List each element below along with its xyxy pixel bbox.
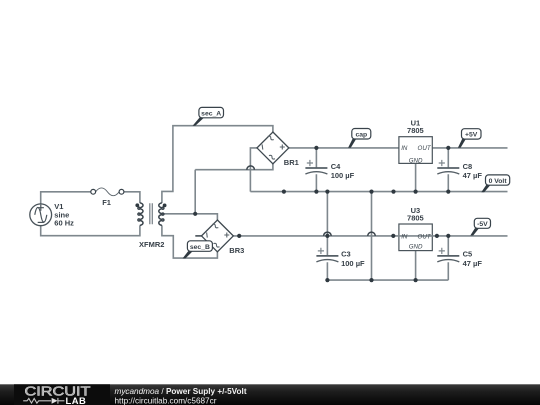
svg-text:mycandmoa / Power Suply +/-5Vo: mycandmoa / Power Suply +/-5Volt (115, 387, 247, 396)
svg-text:LAB: LAB (66, 395, 87, 405)
svg-text:C5: C5 (463, 250, 473, 259)
svg-text:+5V: +5V (465, 132, 478, 139)
svg-text:GND: GND (409, 157, 423, 164)
svg-text:C4: C4 (331, 162, 341, 171)
svg-text:OUT: OUT (418, 233, 432, 240)
svg-text:0 Volt: 0 Volt (489, 178, 508, 185)
svg-text:cap: cap (355, 132, 367, 139)
svg-text:-5V: -5V (477, 221, 488, 228)
svg-text:XFMR2: XFMR2 (139, 240, 164, 249)
svg-text:7805: 7805 (407, 126, 424, 135)
svg-text:47 µF: 47 µF (463, 171, 483, 180)
svg-text:sec_A: sec_A (201, 110, 221, 117)
svg-text:100 µF: 100 µF (341, 259, 365, 268)
svg-text:sec_B: sec_B (190, 244, 210, 251)
svg-text:F1: F1 (102, 198, 111, 207)
svg-text:C8: C8 (463, 162, 473, 171)
svg-text:100 µF: 100 µF (331, 171, 355, 180)
svg-text:47 µF: 47 µF (463, 259, 483, 268)
svg-text:GND: GND (409, 243, 423, 250)
svg-text:OUT: OUT (418, 145, 432, 152)
svg-text:BR1: BR1 (284, 158, 299, 167)
svg-text:60 Hz: 60 Hz (54, 219, 74, 228)
svg-text:BR3: BR3 (229, 246, 244, 255)
svg-text:http://circuitlab.com/c5687cr: http://circuitlab.com/c5687cr (115, 397, 217, 405)
svg-text:7805: 7805 (407, 214, 424, 223)
svg-text:C3: C3 (341, 250, 351, 259)
svg-text:IN: IN (401, 145, 408, 152)
svg-text:IN: IN (401, 233, 408, 240)
